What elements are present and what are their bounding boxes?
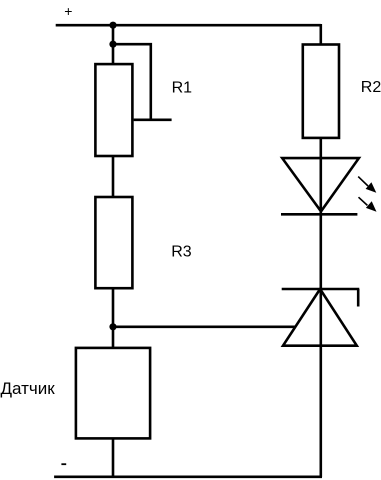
thyristor VS1 triangle [283,289,357,346]
thyristor VS1 cathode bar [282,288,360,291]
svg-text:R2: R2 [361,79,381,96]
wire positive rail [56,24,321,27]
wire dot B to R1 wiper tap [113,44,151,120]
sensor box (Датчик) [76,348,150,439]
wire dot C to sensor top [112,327,115,348]
wire R1 bottom to R3 top [112,156,115,197]
LED light emission arrow 1 [358,177,376,193]
LED light emission arrow 2 [359,197,377,212]
LED VD1 cathode bar [281,213,357,216]
svg-text:Датчик: Датчик [1,379,56,398]
wire R3 bottom to junction dot C [112,287,115,327]
LED VD1 triangle (anode) [282,158,359,211]
node junction dot A (rail / R1 branch) [109,22,116,29]
wire rail to R2 [319,24,322,45]
svg-text:+: + [64,3,72,19]
node junction dot C (gate node) [109,323,116,330]
node junction dot B (R1 top / wiper tie) [109,41,116,48]
thyristor VS1 gate hook [357,289,360,307]
wire gate node to thyristor gate [113,325,295,328]
resistor R2 [303,45,339,138]
wire dot B to R1 top [112,44,115,65]
svg-text:R1: R1 [172,80,193,97]
wire right branch: R2 bottom through LED and thyristor to negative rail [319,138,322,477]
resistor R1 (rheostat body) [95,64,132,156]
minus terminal label [61,463,66,465]
wire negative rail [54,475,322,478]
wire dot A to dot B [112,25,115,44]
wire sensor bottom to negative rail [112,438,115,477]
resistor R1 wiper tap line [134,119,172,122]
svg-text:R3: R3 [171,244,192,261]
resistor R3 [95,197,132,288]
